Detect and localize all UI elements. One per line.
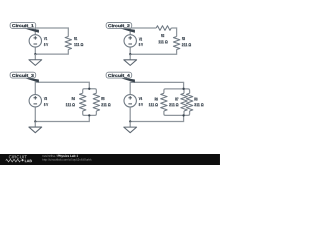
node name flag Circuit_1 bbox=[10, 22, 36, 28]
value label R3 bbox=[182, 36, 192, 47]
svg-text:R1: R1 bbox=[74, 36, 78, 41]
value label R2 bbox=[158, 33, 168, 44]
svg-text:5 V: 5 V bbox=[139, 102, 143, 107]
svg-text:R5: R5 bbox=[101, 96, 105, 101]
junction C1 bbox=[34, 53, 36, 55]
svg-text:V3: V3 bbox=[44, 96, 48, 101]
label pointer for Circuit_1 bbox=[22, 28, 39, 33]
resistor R5 bbox=[93, 93, 99, 111]
svg-text:LAB: LAB bbox=[25, 159, 33, 163]
wire: C4 top node bbox=[130, 82, 183, 94]
svg-text:http://circuitlab.com/c/5qv52v: http://circuitlab.com/c/5qv52v648urbk bbox=[42, 158, 92, 162]
wire: C3 bottom bar bbox=[83, 111, 97, 115]
svg-text:V2: V2 bbox=[139, 36, 143, 41]
svg-text:Circuit_1: Circuit_1 bbox=[12, 23, 35, 28]
value label R6 bbox=[149, 96, 159, 107]
svg-text:R3: R3 bbox=[182, 36, 186, 41]
svg-text:211 Ω: 211 Ω bbox=[182, 42, 192, 47]
wire: R7 bottom stub bbox=[183, 111, 185, 115]
wire: C3 top node bbox=[35, 82, 89, 94]
ground bbox=[29, 121, 42, 132]
wire: C4 top bar bbox=[164, 89, 190, 93]
wire: C2 top node bbox=[130, 28, 156, 35]
svg-text:111 Ω: 111 Ω bbox=[149, 102, 159, 107]
value label V1 5 V bbox=[44, 36, 48, 47]
label pointer for Circuit_4 bbox=[118, 77, 135, 82]
value label V3 5 V bbox=[44, 96, 48, 107]
resistor R8 bbox=[186, 93, 192, 111]
svg-text:R8: R8 bbox=[194, 96, 198, 101]
junction C2 bbox=[129, 53, 131, 55]
svg-text:V1: V1 bbox=[44, 36, 48, 41]
junction C3 top bbox=[88, 88, 90, 90]
svg-text:211 Ω: 211 Ω bbox=[169, 102, 179, 107]
value label R1 bbox=[74, 36, 84, 47]
resistor R2 bbox=[156, 26, 171, 31]
node name flag Circuit_2 bbox=[106, 22, 132, 28]
svg-text:111 Ω: 111 Ω bbox=[74, 42, 84, 47]
svg-text:Circuit_3: Circuit_3 bbox=[12, 73, 35, 78]
junction C3 gnd bbox=[34, 120, 36, 122]
node name flag Circuit_3 bbox=[10, 72, 36, 78]
svg-text:R7: R7 bbox=[175, 96, 179, 101]
wire: R7 top stub bbox=[183, 89, 185, 93]
value label R4 bbox=[66, 96, 76, 107]
svg-text:5 V: 5 V bbox=[139, 42, 143, 47]
ground bbox=[124, 54, 137, 65]
value label R7 bbox=[169, 96, 179, 107]
wire: C2 bottom node bbox=[130, 47, 176, 54]
wire: R2 to R3 bbox=[171, 28, 176, 37]
svg-text:Circuit_2: Circuit_2 bbox=[108, 23, 131, 28]
svg-text:5 V: 5 V bbox=[44, 102, 48, 107]
svg-text:5 V: 5 V bbox=[44, 42, 48, 47]
junction C3 bottom bbox=[88, 114, 90, 116]
resistor R1 bbox=[65, 36, 71, 49]
wire: C3 top bar bbox=[83, 89, 97, 93]
junction C4 top bbox=[182, 88, 184, 90]
junction C4 bottom bbox=[182, 114, 184, 116]
resistor R7 bbox=[181, 93, 187, 111]
voltage source V1 bbox=[29, 35, 41, 47]
svg-text:211 Ω: 211 Ω bbox=[101, 102, 111, 107]
footer banner bbox=[0, 154, 220, 165]
junction C4 gnd bbox=[129, 120, 131, 122]
resistor R6 bbox=[161, 93, 167, 111]
resistor R3 bbox=[173, 37, 179, 50]
svg-text:R2: R2 bbox=[161, 33, 165, 38]
svg-text:V4: V4 bbox=[139, 96, 143, 101]
value label R5 bbox=[101, 96, 111, 107]
svg-text:R6: R6 bbox=[155, 96, 159, 101]
svg-text:R4: R4 bbox=[72, 96, 76, 101]
wire: C3 bottom node bbox=[35, 107, 89, 122]
wire: C4 bottom bar bbox=[164, 111, 190, 115]
node name flag Circuit_4 bbox=[106, 72, 132, 78]
ground bbox=[124, 122, 137, 133]
value label V4 5 V bbox=[139, 96, 143, 107]
wire: C4 bottom node bbox=[130, 107, 183, 122]
wire: C1 bottom node bbox=[35, 47, 68, 54]
value label V2 5 V bbox=[139, 36, 143, 47]
wire: C1 top node bbox=[35, 28, 68, 37]
CircuitLab logo bbox=[6, 154, 33, 163]
svg-text:111 Ω: 111 Ω bbox=[66, 102, 76, 107]
voltage source V4 bbox=[124, 95, 136, 107]
ground bbox=[29, 54, 42, 65]
voltage source V3 bbox=[29, 95, 41, 107]
label pointer for Circuit_2 bbox=[118, 28, 135, 33]
svg-text:311 Ω: 311 Ω bbox=[194, 102, 204, 107]
resistor R4 bbox=[79, 93, 85, 111]
label pointer for Circuit_3 bbox=[22, 77, 39, 82]
voltage source V2 bbox=[124, 35, 136, 47]
svg-text:Circuit_4: Circuit_4 bbox=[108, 73, 131, 78]
value label R8 bbox=[194, 96, 204, 107]
svg-text:111 Ω: 111 Ω bbox=[158, 39, 168, 44]
